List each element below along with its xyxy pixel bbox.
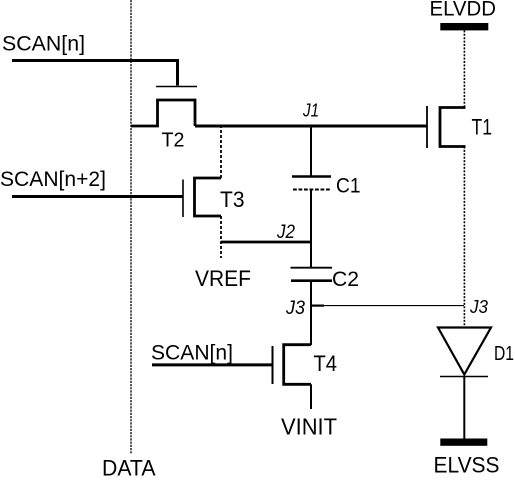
transistor T2 channel — [131, 100, 195, 126]
wire T4 source down to VINIT — [310, 384, 312, 409]
svg-text:J1: J1 — [302, 101, 319, 121]
wire node J1: T2 drain to T1 gate — [195, 125, 427, 128]
wire J1 down to capacitor C1 — [310, 126, 312, 176]
wire J2 down to capacitor C2 — [310, 242, 312, 267]
diode D1 cathode bar — [440, 376, 488, 378]
wire D1 cathode down to ELVSS — [463, 377, 465, 439]
transistor T1 channel and leads — [440, 108, 466, 147]
svg-text:T3: T3 — [220, 187, 245, 212]
svg-text:SCAN[n]: SCAN[n] — [2, 33, 85, 56]
wire SCAN[n+2] to T3 gate — [12, 195, 183, 198]
svg-text:SCAN[n]: SCAN[n] — [151, 342, 233, 365]
svg-text:C2: C2 — [332, 268, 359, 291]
svg-text:J2: J2 — [276, 222, 295, 243]
wire J3 down to T4 drain — [310, 306, 312, 345]
wire node J3 horizontal thin link — [311, 305, 324, 307]
capacitor C1 bottom plate — [293, 188, 331, 190]
svg-text:T4: T4 — [314, 351, 338, 376]
svg-text:ELVDD: ELVDD — [430, 0, 497, 20]
capacitor C2 top plate — [291, 267, 333, 269]
wire T1 source down to diode D1 — [463, 147, 465, 328]
svg-text:J3: J3 — [469, 297, 488, 317]
svg-text:SCAN[n+2]: SCAN[n+2] — [0, 168, 106, 191]
transistor T4 channel and leads — [284, 345, 311, 385]
svg-text:VINIT: VINIT — [281, 414, 337, 440]
wire SCAN[n] to T2 gate — [12, 61, 178, 86]
transistor T1 gate bar — [426, 106, 428, 148]
svg-text:ELVSS: ELVSS — [434, 453, 500, 477]
wire T3 drain up to node J1 — [220, 126, 222, 178]
transistor T3 channel and leads — [195, 178, 222, 216]
svg-text:VREF: VREF — [195, 266, 251, 291]
wire C1 bottom to node J2 — [310, 190, 312, 242]
svg-text:DATA: DATA — [102, 456, 156, 477]
transistor T3 gate bar — [182, 180, 184, 218]
diode D1 anode triangle — [438, 328, 491, 375]
svg-text:J3: J3 — [285, 298, 305, 319]
svg-text:D1: D1 — [494, 343, 514, 365]
wire T3 source down to VREF / J2 — [220, 216, 222, 258]
wire C2 bottom to node J3 — [310, 281, 312, 306]
wire ELVDD down to T1 drain — [463, 30, 465, 108]
capacitor C1 top plate — [292, 175, 331, 178]
wire DATA bus vertical line — [130, 0, 132, 454]
wire SCAN[n] to T4 gate — [152, 363, 273, 366]
power rail ELVSS bar — [440, 439, 487, 446]
wire node J2 horizontal — [221, 241, 311, 244]
svg-text:T2: T2 — [162, 129, 185, 151]
capacitor C2 bottom plate — [291, 279, 332, 282]
power rail ELVDD bar — [440, 23, 488, 30]
transistor T4 gate bar — [272, 346, 274, 384]
svg-text:C1: C1 — [336, 175, 361, 198]
svg-text:T1: T1 — [472, 114, 493, 139]
transistor T2 gate line — [156, 86, 197, 88]
